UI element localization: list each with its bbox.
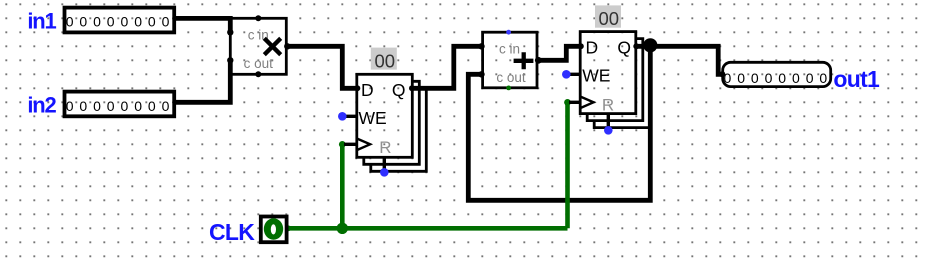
junction node CLK: [337, 223, 348, 234]
node CLK wire end at R2 clock: [564, 99, 571, 106]
node multiplier output port: [284, 43, 290, 49]
svg-text:WE: WE: [359, 108, 387, 128]
svg-text:WE: WE: [582, 66, 610, 86]
register R1 WE stub wire: [342, 115, 357, 118]
register R1 stack shadow 2: [364, 81, 420, 164]
node R2 D port: [578, 43, 584, 49]
register R2 R stub wire: [607, 114, 610, 131]
node adder output port: [535, 57, 542, 64]
clock pin CLK: [261, 217, 287, 243]
node out1 input port: [719, 71, 725, 77]
svg-text:in1: in1: [27, 8, 56, 33]
node in2 output port: [172, 100, 177, 105]
clock value 0: [264, 218, 283, 239]
node multiplier c-in port: [255, 15, 261, 21]
svg-text:0: 0: [148, 98, 156, 114]
svg-text:0: 0: [66, 98, 74, 114]
svg-text:0: 0: [148, 13, 156, 29]
svg-text:in2: in2: [27, 92, 56, 117]
register R1 R stub wire: [383, 157, 386, 172]
svg-text:0: 0: [134, 13, 142, 29]
node R1 R unconnected: [380, 168, 389, 177]
input pin in2: [65, 92, 175, 117]
svg-text:0: 0: [792, 70, 800, 86]
svg-text:out1: out1: [833, 66, 880, 92]
node adder c-out port: [506, 86, 511, 91]
register R2 body: [580, 32, 636, 114]
node multiplier input B port: [227, 57, 233, 63]
adder U2: [483, 32, 537, 88]
node adder input A port: [478, 43, 484, 49]
register R1 value label 00: [371, 48, 397, 70]
multiplier X symbol: [264, 38, 280, 54]
register R1 clock stub: [344, 143, 357, 146]
wire CLK horizontal: [287, 226, 568, 231]
svg-text:0: 0: [66, 13, 74, 29]
wire feedback R2 Q to adder input B: [468, 46, 650, 200]
svg-text:R: R: [379, 138, 391, 157]
node adder input B port: [478, 71, 484, 77]
wire CLK branch to R1 clock: [340, 144, 345, 228]
svg-text:0: 0: [93, 98, 101, 114]
wire multiplier out to register R1 D: [286, 46, 356, 88]
register R2 value label 00: [595, 5, 621, 27]
node R1 D port: [354, 85, 360, 91]
svg-text:0: 0: [79, 98, 87, 114]
svg-text:0: 0: [806, 70, 814, 86]
svg-text:0: 0: [107, 98, 115, 114]
output pin out1: [723, 62, 831, 86]
register R2 clock triangle: [580, 97, 593, 109]
register R2 WE stub wire: [566, 73, 580, 76]
svg-text:0: 0: [107, 13, 115, 29]
node multiplier input A port: [227, 29, 233, 35]
svg-text:0: 0: [162, 98, 170, 114]
register R1 body: [357, 74, 413, 157]
svg-text:0: 0: [121, 98, 129, 114]
svg-text:0: 0: [819, 70, 827, 86]
register R2 stack shadow 3: [594, 46, 650, 128]
node multiplier c-out port: [255, 71, 261, 77]
wire in1 to multiplier: [174, 18, 230, 32]
wire CLK branch to R2 clock: [565, 102, 570, 228]
svg-text:c out: c out: [496, 70, 526, 85]
svg-text:Q: Q: [617, 37, 631, 57]
node R2 Q port: [633, 43, 639, 49]
wire register R1 Q to adder input A: [412, 46, 482, 88]
svg-text:c out: c out: [244, 56, 274, 71]
svg-text:00: 00: [375, 50, 396, 71]
register R1 stack shadow 3: [371, 88, 427, 171]
node R2 WE unconnected: [562, 70, 571, 79]
multiplier U1: [230, 18, 286, 74]
junction node Q/out1/feedback: [643, 38, 657, 52]
svg-text:c in: c in: [499, 41, 520, 56]
wire adder out to register R2 D: [537, 46, 580, 60]
svg-text:Q: Q: [392, 80, 406, 100]
node R2 R unconnected: [604, 126, 613, 135]
svg-text:0: 0: [778, 70, 786, 86]
register R2 stack shadow 2: [587, 39, 643, 121]
svg-text:0: 0: [93, 13, 101, 29]
wire in2 to multiplier: [174, 60, 230, 102]
svg-text:0: 0: [79, 13, 87, 29]
svg-text:0: 0: [737, 70, 745, 86]
adder plus symbol: [514, 52, 534, 69]
register R1 clock triangle: [357, 139, 370, 151]
register R2 clock stub: [569, 101, 580, 104]
node R1 Q port: [409, 85, 415, 91]
node in1 output port: [172, 16, 177, 21]
input pin in1: [65, 8, 175, 33]
svg-text:0: 0: [162, 13, 170, 29]
svg-text:0: 0: [134, 98, 142, 114]
svg-text:D: D: [586, 37, 599, 57]
svg-text:0: 0: [121, 13, 129, 29]
svg-text:00: 00: [599, 8, 620, 29]
node adder c-in port: [506, 30, 511, 35]
node CLK pin port: [285, 225, 291, 231]
svg-text:CLK: CLK: [209, 219, 255, 245]
svg-text:0: 0: [765, 70, 773, 86]
svg-text:0: 0: [751, 70, 759, 86]
node CLK wire end at R1 clock: [339, 141, 346, 148]
svg-text:0: 0: [724, 70, 732, 86]
node R1 WE unconnected: [338, 112, 347, 121]
svg-text:R: R: [602, 96, 614, 115]
wire register R2 Q to out1: [636, 46, 723, 74]
svg-text:D: D: [361, 80, 374, 100]
